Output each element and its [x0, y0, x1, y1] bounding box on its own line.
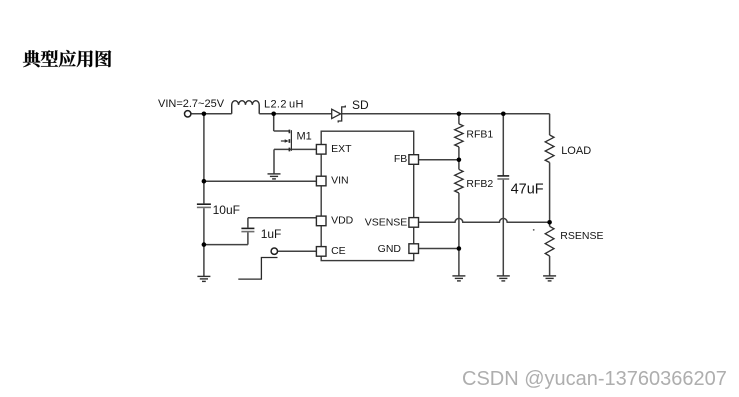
svg-text:RFB2: RFB2 — [466, 178, 493, 190]
svg-text:10uF: 10uF — [213, 203, 240, 217]
svg-text:VIN=2.7~25V: VIN=2.7~25V — [158, 98, 225, 110]
svg-text:CSDN @yucan-13760366207: CSDN @yucan-13760366207 — [462, 368, 727, 390]
svg-text:VDD: VDD — [331, 215, 354, 227]
svg-text:VIN: VIN — [331, 175, 349, 187]
svg-text:GND: GND — [378, 243, 402, 255]
svg-text:1uF: 1uF — [261, 227, 282, 241]
svg-text:47uF: 47uF — [511, 181, 544, 197]
svg-text:LOAD: LOAD — [561, 145, 591, 157]
svg-text:CE: CE — [331, 245, 346, 257]
svg-text:RFB1: RFB1 — [466, 129, 493, 141]
svg-text:VSENSE: VSENSE — [365, 216, 408, 228]
svg-text:EXT: EXT — [331, 143, 352, 155]
svg-text:M1: M1 — [297, 130, 312, 142]
svg-text:SD: SD — [352, 98, 369, 112]
svg-text:L2.2 uH: L2.2 uH — [264, 99, 304, 111]
svg-text:FB: FB — [394, 153, 407, 165]
svg-text:RSENSE: RSENSE — [560, 230, 603, 242]
